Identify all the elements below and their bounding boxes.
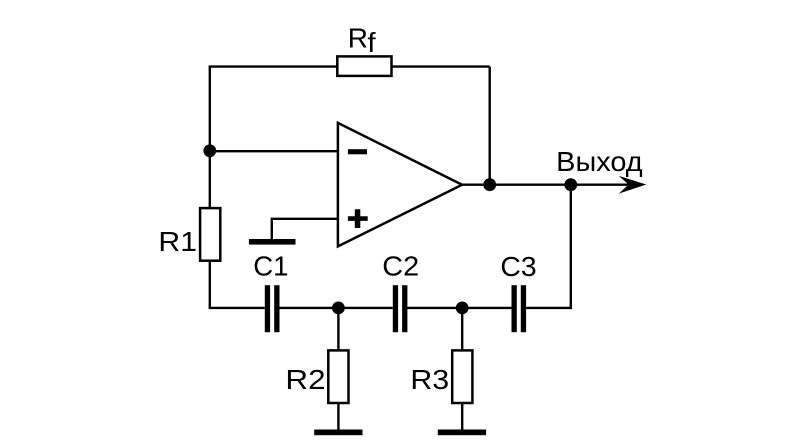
wire: left vertical from node A down to R1 [209,151,211,209]
capacitor C1 [265,285,280,332]
svg-text:R1: R1 [158,226,197,257]
resistor R3 [452,350,472,403]
wire: non-inverting input to ground [272,219,338,240]
svg-text:Выход: Выход [556,146,642,177]
ground (below R2) [314,430,362,436]
svg-text:C2: C2 [382,251,419,282]
capacitor C3 [512,285,527,332]
op-amp minus sign [348,149,367,154]
capacitor C2 [393,285,408,332]
wire: R3 down to ground [461,403,463,430]
wire: inverting input from node A to op-amp [210,150,338,152]
wire: right feedback vertical down to output line [489,67,491,185]
wire: bottom rail node D to C2 [338,307,392,309]
op-amp U1 [338,123,462,246]
wire: bottom rail C2 to node E [407,307,462,309]
wire: top feedback, node A up-left to right vertical [210,67,490,151]
svg-text:C3: C3 [500,251,536,282]
node A (inverting input junction) [203,144,216,157]
svg-text:f: f [367,27,375,58]
node E (C2-C3 junction) [456,302,469,315]
wire: output down to bottom rail [526,185,571,308]
wire: op-amp output to arrow [462,183,640,185]
ground (below R3) [438,430,486,436]
resistor R1 [200,208,220,261]
output arrowhead [619,176,647,194]
node B (feedback junction on output line) [483,178,496,191]
svg-text:C1: C1 [253,251,288,282]
node D (C1-C2 junction) [332,302,345,315]
wire: node D down to R2 [337,308,339,351]
wire: bottom rail node E to C3 [462,307,511,309]
resistor Rf [337,56,391,76]
wire: node E down to R3 [461,308,463,351]
wire: R2 down to ground [337,403,339,430]
wire: bottom rail C1 to node D [279,307,338,309]
wire: R1 bottom down to bottom rail [210,261,265,308]
node C (output junction) [564,178,577,191]
ground (op-amp non-inverting input) [249,239,296,245]
svg-text:R2: R2 [285,364,325,395]
svg-text:R3: R3 [410,364,449,395]
resistor R2 [328,350,348,403]
op-amp plus sign [348,209,368,228]
svg-text:R: R [348,23,368,54]
